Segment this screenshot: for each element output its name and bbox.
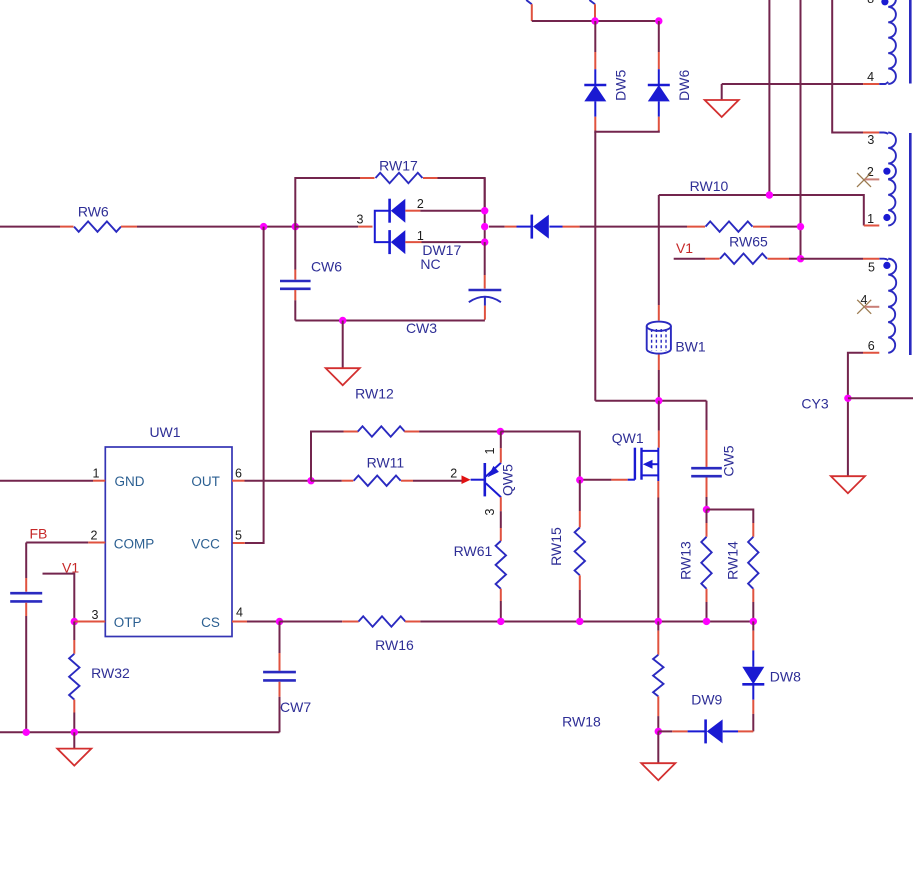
winding W2 coil a <box>888 133 896 179</box>
svg-text:RW16: RW16 <box>375 637 414 653</box>
svg-text:CS: CS <box>201 615 220 630</box>
junction RW14/DW8 <box>750 618 757 625</box>
junction QW1 drain node <box>655 397 662 404</box>
wire to RW65 row <box>580 226 687 228</box>
diode DW5 <box>594 21 596 52</box>
svg-text:FB: FB <box>29 525 47 541</box>
resistor RW65 (top row) <box>687 226 705 228</box>
capacitor FB (unlabeled) <box>10 592 42 595</box>
wire CY3 row right <box>848 397 913 399</box>
junction RW18 top <box>655 618 662 625</box>
wire QW1 drain <box>658 401 660 431</box>
svg-text:4: 4 <box>236 606 243 620</box>
winding W3 dot pin5 <box>883 262 890 269</box>
junction V1 row <box>797 255 804 262</box>
dual diode DW17 <box>375 211 389 242</box>
diode (mid, unlabeled) <box>489 226 505 228</box>
winding W3 coil a <box>888 259 896 307</box>
svg-text:RW65: RW65 <box>729 233 768 249</box>
junction RW10 row <box>766 191 773 198</box>
resistor RW18 <box>657 621 659 630</box>
winding W3 coil b <box>888 307 895 353</box>
transformer core segment 2 <box>909 133 912 355</box>
wire QW5 emitter down <box>500 497 502 511</box>
stub UW1 pin1 <box>93 480 105 482</box>
svg-text:COMP: COMP <box>114 536 155 551</box>
resistor RW61 <box>500 528 502 541</box>
no-connect X pin2 <box>857 173 871 187</box>
stub pin4 NC w3 <box>865 306 880 308</box>
svg-text:BW1: BW1 <box>675 339 706 355</box>
junction pin1 node <box>481 238 488 245</box>
winding W2 dot pin1 <box>883 214 890 221</box>
svg-text:8: 8 <box>867 0 874 6</box>
svg-text:RW32: RW32 <box>91 665 130 681</box>
svg-text:2: 2 <box>417 197 424 211</box>
wire pin1 DW17 <box>405 241 421 243</box>
wire RW17 loop <box>295 178 360 227</box>
resistor RW11 <box>311 480 342 482</box>
transistor QW5 <box>471 479 485 481</box>
svg-text:QW1: QW1 <box>612 430 644 446</box>
QW5 arrow <box>488 466 499 477</box>
junction RW32 bottom <box>71 729 78 736</box>
capacitor CW7 <box>279 622 281 654</box>
svg-text:RW11: RW11 <box>367 454 405 470</box>
junction DW6 top <box>655 17 662 24</box>
transformer winding W2 <box>879 133 888 134</box>
partial resistor top-left 2 <box>589 0 595 4</box>
wire RW6 row <box>0 226 60 228</box>
junction RW15 bottom <box>576 618 583 625</box>
resistor RW32 <box>73 622 75 641</box>
stub DW17 pin3 <box>358 226 372 228</box>
svg-text:4: 4 <box>867 70 874 84</box>
junction CW6 branch <box>292 223 299 230</box>
svg-text:6: 6 <box>235 467 242 481</box>
svg-text:5: 5 <box>868 260 875 274</box>
wire y84 to pin4 <box>722 83 863 85</box>
stub UW1 pin2 <box>88 542 105 544</box>
svg-text:3: 3 <box>483 508 497 515</box>
winding W2 dot pin2 <box>883 168 890 175</box>
junction RW65 top <box>797 223 804 230</box>
svg-text:NC: NC <box>420 256 440 272</box>
wire V1 to OTP <box>43 574 75 622</box>
svg-text:RW17: RW17 <box>379 158 418 174</box>
ground CY3 <box>831 476 865 493</box>
svg-text:CW3: CW3 <box>406 320 437 336</box>
svg-text:DW9: DW9 <box>691 691 722 707</box>
wire top rail y21 <box>532 20 659 22</box>
wire QW5 collector up <box>500 448 502 463</box>
DW17 bottom diode (pin1) <box>388 230 391 254</box>
svg-text:5: 5 <box>235 529 242 543</box>
resistor RW13 <box>706 510 708 524</box>
svg-text:1: 1 <box>867 212 874 226</box>
winding W1 coil <box>888 0 896 84</box>
junction OTP node <box>71 618 78 625</box>
wire RW13/14 top row <box>707 510 754 524</box>
svg-text:CY3: CY3 <box>801 396 828 412</box>
partial resistor top-left 1 <box>526 0 532 4</box>
junction DW5 top <box>591 17 598 24</box>
svg-text:RW12: RW12 <box>355 386 394 402</box>
svg-text:3: 3 <box>92 608 99 622</box>
diode DW9 <box>658 730 672 732</box>
svg-text:RW13: RW13 <box>677 541 693 580</box>
wire x595 down <box>594 132 596 401</box>
svg-text:2: 2 <box>91 529 98 543</box>
resistor RW6 <box>74 221 121 231</box>
stub pin3 w2 <box>863 132 879 134</box>
stub pin1 w2 <box>864 225 880 227</box>
diode DW6 <box>658 21 660 52</box>
junction VCC branch <box>260 223 267 230</box>
wire x769 vertical <box>768 0 770 195</box>
svg-text:VCC: VCC <box>191 536 220 551</box>
svg-text:OUT: OUT <box>191 474 220 489</box>
wire x484 vertical <box>484 178 486 242</box>
wire V1 row <box>674 258 705 260</box>
resistor RW65 body v1 row <box>720 254 767 264</box>
svg-text:CW6: CW6 <box>311 259 342 275</box>
svg-text:GND: GND <box>115 474 145 489</box>
svg-text:RW10: RW10 <box>690 178 729 194</box>
junction QW5 top <box>497 428 504 435</box>
junction RW13/RW14 top <box>703 506 710 513</box>
svg-text:RW6: RW6 <box>78 204 109 220</box>
wire QW1 gate <box>580 479 612 481</box>
wire CW6 vertical <box>294 227 296 270</box>
ground left <box>73 732 75 748</box>
transformer winding W3 <box>879 259 888 260</box>
wire x800 vertical <box>800 0 802 259</box>
junction CY3 node <box>844 395 851 402</box>
QW1 arrow <box>643 460 653 469</box>
wire pin6 down <box>848 353 863 476</box>
winding W2 coil b <box>888 179 895 225</box>
wire to pin5 <box>801 258 864 260</box>
wire FB cap vertical <box>25 543 27 579</box>
junction DW9 node <box>655 728 662 735</box>
stub pin5 w3 <box>863 258 879 260</box>
wire CW5 vertical <box>706 401 708 430</box>
wire pin2 DW17 <box>405 210 420 212</box>
junction mid node <box>481 223 488 230</box>
wire x658 RW10 corner down <box>658 195 660 305</box>
wire to CW3 <box>484 242 486 275</box>
mosfet QW1 <box>634 448 636 480</box>
port arrow QW5 base <box>462 475 471 484</box>
junction CW7 branch <box>276 618 283 625</box>
junction pin2 node <box>481 207 488 214</box>
svg-text:1: 1 <box>93 467 100 481</box>
svg-text:3: 3 <box>867 133 874 147</box>
ferrite bead BW1 <box>647 322 671 331</box>
svg-text:RW14: RW14 <box>724 541 740 580</box>
svg-text:CW5: CW5 <box>721 445 737 476</box>
svg-text:RW18: RW18 <box>562 714 601 730</box>
wire loop bottom y320 <box>295 320 485 322</box>
winding W1 dot <box>881 0 888 5</box>
junction FB cap bottom <box>23 729 30 736</box>
svg-text:RW15: RW15 <box>548 527 564 566</box>
wire x263 to VCC <box>245 227 264 543</box>
svg-text:UW1: UW1 <box>149 424 180 440</box>
svg-text:2: 2 <box>450 467 457 481</box>
svg-text:3: 3 <box>357 213 364 227</box>
capacitor CW6 <box>280 280 311 283</box>
junction RW61 bottom <box>497 618 504 625</box>
junction RW13 bottom <box>703 618 710 625</box>
wire RW10 row to pin1 <box>659 195 864 226</box>
op-amp / IC UW1 box <box>105 447 232 637</box>
wire COMP row <box>26 542 88 544</box>
svg-text:V1: V1 <box>676 240 693 256</box>
ground RW12 <box>342 321 344 369</box>
stub pin6 w3 <box>863 352 879 354</box>
wire QW1 source down <box>657 481 659 497</box>
capacitor CW3 (polarized) <box>469 289 502 292</box>
wire ground rail y732 <box>0 731 280 733</box>
wire to x580 <box>500 432 579 481</box>
wire x832 to pin3 <box>832 0 863 133</box>
stub UW1 pin4 <box>232 621 247 623</box>
stub UW1 pin3 <box>74 621 105 623</box>
upper parallel resistor <box>311 432 344 481</box>
svg-text:QW5: QW5 <box>500 464 516 496</box>
stub UW1 pin6 <box>232 480 245 482</box>
junction RW11 branch <box>307 477 314 484</box>
capacitor CW5 <box>691 467 722 470</box>
transformer core segment 1 <box>909 0 912 84</box>
wire GND pin row <box>0 480 93 482</box>
diode DW8 <box>752 621 754 630</box>
resistor RW17 <box>376 173 423 183</box>
svg-text:OTP: OTP <box>114 615 142 630</box>
svg-text:DW5: DW5 <box>612 70 628 101</box>
ground top <box>721 84 723 100</box>
svg-text:CW7: CW7 <box>280 699 311 715</box>
ground bottom right <box>657 731 659 763</box>
transformer winding W1 (top) <box>879 82 888 84</box>
resistor RW16 <box>342 621 359 623</box>
wire y400 row <box>595 400 706 402</box>
stub pin2 NC <box>865 178 880 180</box>
resistor RW14 <box>752 523 754 537</box>
wire to DW17 pin3 <box>295 226 358 228</box>
svg-text:RW61: RW61 <box>454 543 493 559</box>
svg-text:DW8: DW8 <box>770 668 801 684</box>
stub VCC pin5 <box>232 542 245 544</box>
no-connect X pin4 w3 <box>857 300 871 314</box>
svg-text:DW6: DW6 <box>676 70 692 101</box>
DW17 top diode (pin2) <box>388 199 391 223</box>
stub pin4 w1 <box>863 83 879 85</box>
junction gate node <box>576 476 583 483</box>
junction ground branch <box>339 317 346 324</box>
wire DW5-DW6 bottom <box>595 131 659 132</box>
svg-text:6: 6 <box>868 339 875 353</box>
svg-text:1: 1 <box>483 447 497 454</box>
